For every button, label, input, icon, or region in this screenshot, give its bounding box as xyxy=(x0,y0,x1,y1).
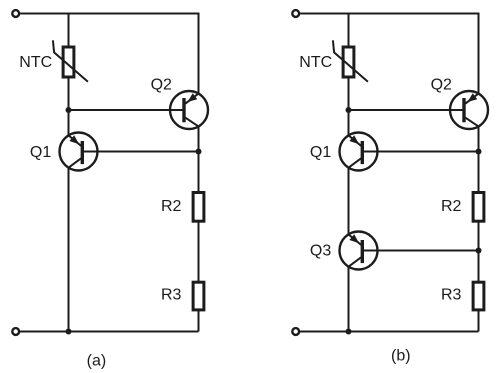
wire Q1 base to right rail (a) xyxy=(82,151,198,153)
input terminal top (b) xyxy=(292,10,299,17)
wire top rail (b) xyxy=(299,13,479,15)
svg-text:Q1: Q1 xyxy=(30,144,51,161)
transistor Q3 base bar xyxy=(361,240,364,263)
transistor Q2' body circle xyxy=(450,91,488,129)
transistor Q3 emitter lead (arrow into base, PNP) xyxy=(349,234,362,245)
node junction: left rail to Q2 base (a) xyxy=(66,107,72,113)
wire right rail R2-to-R3 segment (b) xyxy=(478,222,480,283)
thermistor NTC a body (resistor rectangle) xyxy=(63,47,74,77)
svg-text:Q2: Q2 xyxy=(151,77,172,94)
transistor Q2' emitter lead (arrow into base, PNP) xyxy=(465,94,478,104)
thermistor NTC b temperature-dependence diagonal stroke xyxy=(333,40,368,81)
svg-text:Q3: Q3 xyxy=(310,242,331,259)
wire right rail bottom segment (b) xyxy=(478,310,480,331)
wire right rail Q2-to-R2 segment (a) xyxy=(198,125,200,192)
resistor R2 (b) xyxy=(473,193,484,222)
svg-text:Q1: Q1 xyxy=(310,144,331,161)
input terminal top (a) xyxy=(12,10,19,17)
node junction: left rail to Q2 base (b) xyxy=(346,107,352,113)
wire Q3 base to right rail (b) xyxy=(362,250,478,252)
node junction: left rail on bottom rail (b) xyxy=(346,329,352,335)
transistor Q2 base bar xyxy=(182,98,185,122)
wire right rail top segment (a) xyxy=(198,13,200,95)
svg-text:Q2: Q2 xyxy=(431,77,452,94)
wire top rail (a) xyxy=(19,13,199,15)
wire right rail top segment (b) xyxy=(478,13,480,95)
svg-text:R3: R3 xyxy=(161,287,182,304)
resistor R3 (b) xyxy=(473,282,484,310)
node junction: Q3 base on right rail (b) xyxy=(476,248,482,254)
transistor Q1 base bar xyxy=(81,141,84,164)
wire left rail upper segment (a) xyxy=(68,13,70,48)
transistor Q1' body circle xyxy=(340,133,378,171)
transistor Q2 collector lead xyxy=(185,118,198,127)
transistor Q1' base bar xyxy=(361,141,364,164)
thermistor NTC a temperature-dependence diagonal stroke xyxy=(53,40,88,81)
wire Q2 base (a) xyxy=(69,109,185,111)
transistor Q3 collector lead xyxy=(349,257,362,266)
resistor R2 (a) xyxy=(193,193,204,222)
transistor Q1 emitter lead (arrow into base, PNP) xyxy=(69,135,82,146)
wire right rail bottom segment (a) xyxy=(198,310,200,331)
svg-text:R2: R2 xyxy=(441,198,462,215)
wire left rail Q1-to-bottom segment (a) xyxy=(68,167,70,332)
wire Q1 base to right rail (b) xyxy=(362,151,478,153)
svg-text:(b): (b) xyxy=(391,348,411,365)
wire left rail upper segment (b) xyxy=(348,13,350,48)
wire left rail NTC-to-Q1 segment (b) xyxy=(348,77,350,137)
svg-text:NTC: NTC xyxy=(299,54,332,71)
wire bottom rail (b) xyxy=(299,331,479,333)
transistor Q2 emitter lead (arrow into base, PNP) xyxy=(185,94,198,104)
transistor Q1' collector lead xyxy=(349,158,362,167)
wire left rail Q1-to-Q3 segment (b) xyxy=(348,167,350,236)
resistor R3 (a) xyxy=(193,282,204,310)
transistor Q2' base bar xyxy=(462,98,465,122)
transistor Q2 body circle xyxy=(170,91,208,129)
transistor Q3 body circle xyxy=(340,232,378,270)
input terminal bottom (b) xyxy=(292,328,299,335)
transistor Q2' collector lead xyxy=(465,118,478,127)
svg-text:R3: R3 xyxy=(441,287,462,304)
wire right rail Q2-to-R2 segment (b) xyxy=(478,125,480,192)
node junction: Q1 base on right rail (b) xyxy=(476,149,482,155)
transistor Q1 collector lead xyxy=(69,158,82,167)
svg-text:(a): (a) xyxy=(87,352,107,369)
transistor Q1' emitter lead (arrow into base, PNP) xyxy=(349,135,362,146)
svg-text:NTC: NTC xyxy=(19,54,52,71)
svg-text:R2: R2 xyxy=(161,198,182,215)
wire bottom rail (a) xyxy=(19,331,199,333)
wire left rail Q3-to-bottom segment (b) xyxy=(348,266,350,332)
thermistor NTC b body (resistor rectangle) xyxy=(343,47,354,77)
node junction: Q1 base on right rail (a) xyxy=(196,149,202,155)
wire right rail R2-to-R3 segment (a) xyxy=(198,222,200,283)
transistor Q1 body circle xyxy=(60,133,98,171)
wire left rail NTC-to-Q1 segment (a) xyxy=(68,77,70,137)
wire Q2 base (b) xyxy=(349,109,465,111)
node junction: left rail on bottom rail (a) xyxy=(66,329,72,335)
input terminal bottom (a) xyxy=(12,328,19,335)
